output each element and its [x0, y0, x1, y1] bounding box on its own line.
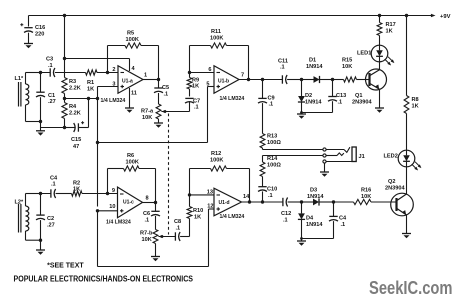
svg-text:.27: .27	[47, 223, 55, 229]
svg-text:1K: 1K	[412, 104, 419, 110]
node R4 bottom	[63, 126, 66, 129]
svg-text:1: 1	[144, 73, 147, 79]
ground below R7-b	[151, 256, 160, 258]
svg-text:R10: R10	[193, 208, 203, 214]
wire R10 to pin 13	[189, 195, 191, 207]
wire bias to pin5	[98, 142, 208, 144]
potentiometer R7-b	[153, 230, 158, 244]
op-amp U1-d	[214, 188, 242, 216]
svg-text:.1: .1	[164, 92, 169, 98]
svg-text:C13: C13	[336, 93, 346, 99]
svg-text:C2: C2	[47, 216, 54, 222]
ground below tank2	[36, 249, 45, 251]
capacitor C3	[49, 68, 51, 76]
svg-text:.1: .1	[176, 226, 181, 232]
svg-text:1N914: 1N914	[306, 222, 323, 228]
svg-text:C8: C8	[174, 219, 181, 225]
wire +9V rail	[29, 15, 432, 17]
wire Q1 collector	[379, 62, 381, 70]
svg-text:R6: R6	[127, 153, 134, 159]
wire LED2 to Q2 collector	[406, 167, 408, 194]
resistor R6	[108, 168, 124, 170]
ground below C16	[24, 43, 33, 45]
svg-text:R7-a: R7-a	[141, 109, 154, 115]
svg-text:.1: .1	[341, 222, 346, 228]
node U1-d output	[248, 200, 251, 203]
wire C13 return	[302, 112, 333, 114]
wire jack ring to R14	[263, 155, 323, 157]
resistor R13	[260, 134, 265, 149]
wire R9 to pin 6	[189, 73, 191, 78]
ground below J1	[320, 171, 329, 173]
wire input signal top	[26, 72, 51, 74]
wire C15 to bias node	[88, 99, 90, 128]
svg-text:.1: .1	[283, 218, 288, 224]
svg-text:1/4 LM324: 1/4 LM324	[101, 98, 126, 104]
wire U1-d output	[242, 201, 263, 203]
wire feedback U1-d left	[189, 169, 191, 195]
wire U1-c output	[143, 202, 156, 204]
svg-text:U1-a: U1-a	[122, 79, 133, 85]
wire Q1 emitter	[379, 89, 381, 108]
node tank2 bottom	[39, 239, 42, 242]
svg-text:100K: 100K	[126, 37, 139, 43]
wire R7-a bottom	[158, 119, 160, 123]
svg-text:.1: .1	[194, 105, 199, 111]
diode D4	[301, 202, 303, 213]
resistor R17	[379, 16, 381, 23]
wire R16 to Q2 base	[371, 201, 397, 203]
svg-text:3: 3	[112, 81, 115, 87]
resistor R14	[260, 162, 265, 177]
svg-text:100Ω: 100Ω	[267, 163, 281, 169]
svg-text:1K: 1K	[386, 29, 393, 35]
svg-text:J1: J1	[359, 154, 365, 160]
node feedback tap R11	[188, 71, 191, 74]
svg-text:R13: R13	[267, 134, 277, 140]
svg-text:2.2K: 2.2K	[69, 111, 81, 117]
svg-text:10K: 10K	[142, 237, 152, 243]
svg-text:1/4 LM324: 1/4 LM324	[106, 220, 131, 226]
svg-text:Q2: Q2	[388, 179, 395, 185]
wire pin 11 to ground	[129, 88, 131, 108]
svg-text:Q1: Q1	[355, 93, 362, 99]
resistor R2	[72, 191, 83, 196]
svg-text:*SEE TEXT: *SEE TEXT	[47, 263, 84, 270]
ground below R7-a	[154, 122, 163, 124]
capacitor C11	[281, 75, 283, 83]
potentiometer R7-a	[156, 104, 161, 119]
node C14 tap	[332, 200, 335, 203]
svg-text:100Ω: 100Ω	[267, 140, 281, 146]
capacitor C14	[333, 202, 335, 216]
wire feedback U1-c left	[107, 169, 109, 194]
node D4 tap	[300, 200, 303, 203]
svg-text:C4: C4	[339, 216, 347, 222]
jack J1 sleeve contact	[323, 160, 326, 163]
op-amp U1-b	[214, 66, 239, 94]
svg-text:47: 47	[73, 144, 79, 150]
node pin4 branch	[63, 57, 66, 60]
svg-text:.1: .1	[51, 182, 56, 188]
wire feedback U1-a left	[107, 46, 109, 73]
node R3/R4 midpoint	[63, 97, 66, 100]
svg-text:C3: C3	[46, 57, 53, 63]
svg-text:.1: .1	[48, 63, 53, 69]
svg-text:1K: 1K	[194, 215, 201, 221]
node tank1 top	[39, 71, 42, 74]
capacitor C10	[262, 177, 264, 187]
svg-text:1N914: 1N914	[307, 194, 324, 200]
svg-text:R3: R3	[69, 79, 76, 85]
resistor R9	[187, 78, 192, 90]
wire bias bottom run	[98, 266, 209, 268]
svg-text:11: 11	[131, 90, 137, 96]
svg-text:9: 9	[112, 188, 115, 194]
+9V supply arrow	[431, 14, 436, 17]
wire R4 bottom	[64, 119, 66, 128]
svg-text:2.2K: 2.2K	[69, 86, 81, 92]
ground below tank1	[36, 130, 45, 132]
op-amp U1-c	[118, 187, 143, 218]
svg-text:1K: 1K	[73, 187, 80, 193]
svg-text:6: 6	[208, 67, 211, 73]
svg-text:R15: R15	[342, 58, 352, 64]
jack J1 barrel	[352, 147, 356, 162]
svg-text:.1: .1	[145, 218, 150, 224]
svg-text:+9V: +9V	[440, 14, 451, 20]
wire C8 to R10	[189, 219, 191, 237]
svg-text:C16: C16	[35, 25, 45, 31]
wire L1 top	[26, 72, 41, 74]
wire R7-b bottom	[155, 244, 157, 257]
capacitor C5	[158, 80, 160, 89]
resistor R10	[187, 207, 192, 219]
node U1-a output	[157, 78, 160, 81]
LED2	[398, 150, 415, 167]
capacitor C13	[332, 80, 334, 97]
capacitor C6	[155, 203, 157, 212]
resistor R3	[62, 78, 67, 94]
svg-text:100K: 100K	[126, 160, 139, 166]
svg-text:2: 2	[112, 67, 115, 73]
wire to pin 4	[65, 58, 130, 60]
svg-text:2N3904: 2N3904	[385, 186, 405, 192]
svg-text:D4: D4	[306, 216, 314, 222]
svg-text:C10: C10	[267, 187, 277, 193]
svg-text:R16: R16	[361, 188, 371, 194]
svg-text:LED2: LED2	[384, 154, 398, 160]
svg-text:.27: .27	[48, 99, 56, 105]
svg-text:12: 12	[207, 204, 213, 210]
LED1	[371, 45, 388, 62]
node feedback tap R5	[106, 71, 109, 74]
wire R13 to jack tip	[262, 148, 264, 150]
node rail junction Q1 branch	[378, 14, 381, 17]
wire tank2 bottom	[26, 239, 41, 241]
resistor R11	[190, 45, 211, 47]
svg-text:C6: C6	[143, 211, 150, 217]
svg-text:R11: R11	[211, 29, 221, 35]
wire feedback U1-a right	[158, 46, 160, 80]
diode D2	[301, 80, 303, 97]
resistor R12	[190, 168, 211, 170]
svg-text:1K: 1K	[87, 87, 94, 93]
svg-text:D1: D1	[309, 58, 316, 64]
svg-text:SeekIC.com: SeekIC.com	[369, 278, 453, 298]
svg-text:U1-b: U1-b	[218, 79, 229, 85]
node D4 bottom	[300, 237, 303, 240]
jack J1 tip contact	[323, 148, 326, 151]
wire jack sleeve to ground	[324, 163, 326, 172]
svg-text:.1: .1	[338, 100, 343, 106]
capacitor C15	[77, 123, 79, 131]
node U1-b output	[247, 78, 250, 81]
svg-text:R7-b: R7-b	[140, 231, 153, 237]
node feedback tap R12	[188, 193, 191, 196]
resistor R4	[62, 103, 67, 119]
svg-text:220: 220	[35, 32, 44, 38]
svg-text:100K: 100K	[210, 158, 223, 164]
wire bias bus upper	[97, 99, 99, 207]
svg-text:7: 7	[241, 73, 244, 79]
inductor L2	[25, 194, 27, 207]
svg-text:POPULAR ELECTRONICS/HANDS-ON E: POPULAR ELECTRONICS/HANDS-ON ELECTRONICS	[14, 274, 194, 284]
wire bias bus lower	[97, 211, 99, 267]
svg-text:R12: R12	[211, 151, 221, 157]
svg-text:D3: D3	[310, 188, 317, 194]
wire U1-b output	[239, 79, 263, 81]
wire R15 to Q1 base	[357, 79, 370, 81]
wire R7-a wiper	[161, 111, 189, 113]
resistor R8	[406, 16, 408, 96]
svg-text:2N3904: 2N3904	[352, 100, 372, 106]
ground below Q1	[375, 107, 384, 109]
svg-text:5: 5	[206, 82, 209, 88]
svg-text:R1: R1	[87, 80, 94, 86]
wire C14 return	[302, 238, 334, 240]
node U1-c output	[154, 201, 157, 204]
node feedback tap R6	[106, 192, 109, 195]
wire pin10 bias	[98, 210, 118, 212]
wire L2 top	[26, 193, 41, 195]
node bias C15	[87, 97, 90, 100]
capacitor C9	[262, 80, 264, 99]
svg-text:10K: 10K	[142, 115, 152, 121]
wire ground row to C15	[41, 127, 65, 129]
capacitor C12	[282, 198, 284, 206]
svg-text:C5: C5	[162, 85, 169, 91]
jack J1 ring contact	[323, 154, 326, 157]
node C13 tap	[331, 78, 334, 81]
svg-text:8: 8	[146, 196, 149, 202]
transistor Q2	[391, 193, 414, 216]
svg-text:C12: C12	[281, 211, 291, 217]
svg-text:D2: D2	[305, 93, 312, 99]
svg-text:R4: R4	[69, 104, 77, 110]
wire Q2 emitter	[406, 215, 408, 234]
node R7-a wiper	[164, 110, 167, 113]
node R7-b wiper	[161, 235, 164, 238]
node tank1 bottom	[39, 120, 42, 123]
wire R7-b wiper	[158, 236, 175, 238]
resistor R16	[334, 201, 354, 203]
svg-text:10: 10	[109, 204, 115, 210]
capacitor C16	[28, 16, 30, 27]
resistor R1	[86, 70, 98, 75]
svg-text:1N914: 1N914	[305, 100, 322, 106]
resistor R5	[108, 45, 126, 47]
svg-text:R2: R2	[73, 181, 80, 187]
ground below U1-a	[125, 107, 134, 109]
svg-text:LED1: LED1	[357, 50, 371, 56]
ground below D4	[301, 239, 303, 242]
node C9 tap	[261, 78, 264, 81]
svg-text:R8: R8	[412, 97, 419, 103]
gang dashed line R7	[168, 114, 170, 235]
svg-text:U1-d: U1-d	[219, 200, 230, 206]
svg-text:1N914: 1N914	[306, 64, 323, 70]
wire pin5 bias riser	[208, 86, 215, 88]
node rail junction x64	[63, 14, 66, 17]
inductor L1	[25, 73, 27, 85]
capacitor C8	[174, 232, 176, 240]
capacitor C1	[40, 73, 42, 93]
svg-text:13: 13	[207, 190, 213, 196]
svg-text:.1: .1	[280, 65, 285, 71]
node D2 bottom	[300, 111, 303, 114]
ground below D2	[301, 113, 303, 115]
svg-text:L2*: L2*	[15, 200, 25, 206]
ground below Q2	[402, 233, 411, 235]
svg-text:R14: R14	[267, 156, 278, 162]
diode D1	[302, 79, 314, 81]
wire U1-a output	[143, 79, 159, 81]
wire to C12	[263, 201, 283, 203]
wire feedback U1-b right	[248, 46, 250, 80]
wire bias midpoint to bus	[65, 98, 98, 100]
svg-text:1K: 1K	[192, 84, 199, 90]
svg-text:.1: .1	[269, 102, 274, 108]
node rail junction Q2 branch	[405, 14, 408, 17]
node tank2 top	[39, 192, 42, 195]
capacitor C7	[189, 102, 191, 112]
wire tank1 bottom	[26, 121, 41, 123]
svg-text:C15: C15	[71, 137, 81, 143]
svg-text:1/4 LM324: 1/4 LM324	[220, 214, 245, 220]
wire pin12 riser	[208, 209, 210, 267]
op-amp U1-a	[118, 66, 143, 94]
wire feedback U1-b left	[189, 46, 191, 73]
resistor R15	[333, 79, 344, 81]
svg-text:R5: R5	[127, 31, 134, 37]
wire V+ drop x64	[64, 16, 66, 78]
node bias bus top	[96, 97, 99, 100]
svg-text:.1: .1	[268, 193, 273, 199]
diode D3	[302, 201, 314, 203]
wire feedback U1-c right	[155, 169, 157, 203]
svg-text:10K: 10K	[342, 64, 352, 70]
svg-text:100K: 100K	[210, 36, 223, 42]
wire pin3 bias	[98, 86, 119, 88]
node D2 tap	[300, 78, 303, 81]
svg-text:U1-c: U1-c	[123, 200, 134, 206]
svg-text:1/4 LM324: 1/4 LM324	[220, 96, 245, 102]
node bias bus pin5 tap	[96, 141, 99, 144]
capacitor C2	[40, 194, 42, 216]
svg-text:L1*: L1*	[15, 76, 25, 82]
wire feedback U1-d right	[249, 169, 251, 203]
wire to C11	[263, 79, 283, 81]
capacitor C4	[50, 189, 52, 197]
wire input signal lower	[26, 193, 51, 195]
node C10 bottom	[261, 200, 264, 203]
node bias bus pin10 tap	[96, 209, 99, 212]
svg-text:10K: 10K	[361, 194, 371, 200]
svg-text:R17: R17	[386, 22, 396, 28]
transistor Q1	[366, 69, 387, 90]
